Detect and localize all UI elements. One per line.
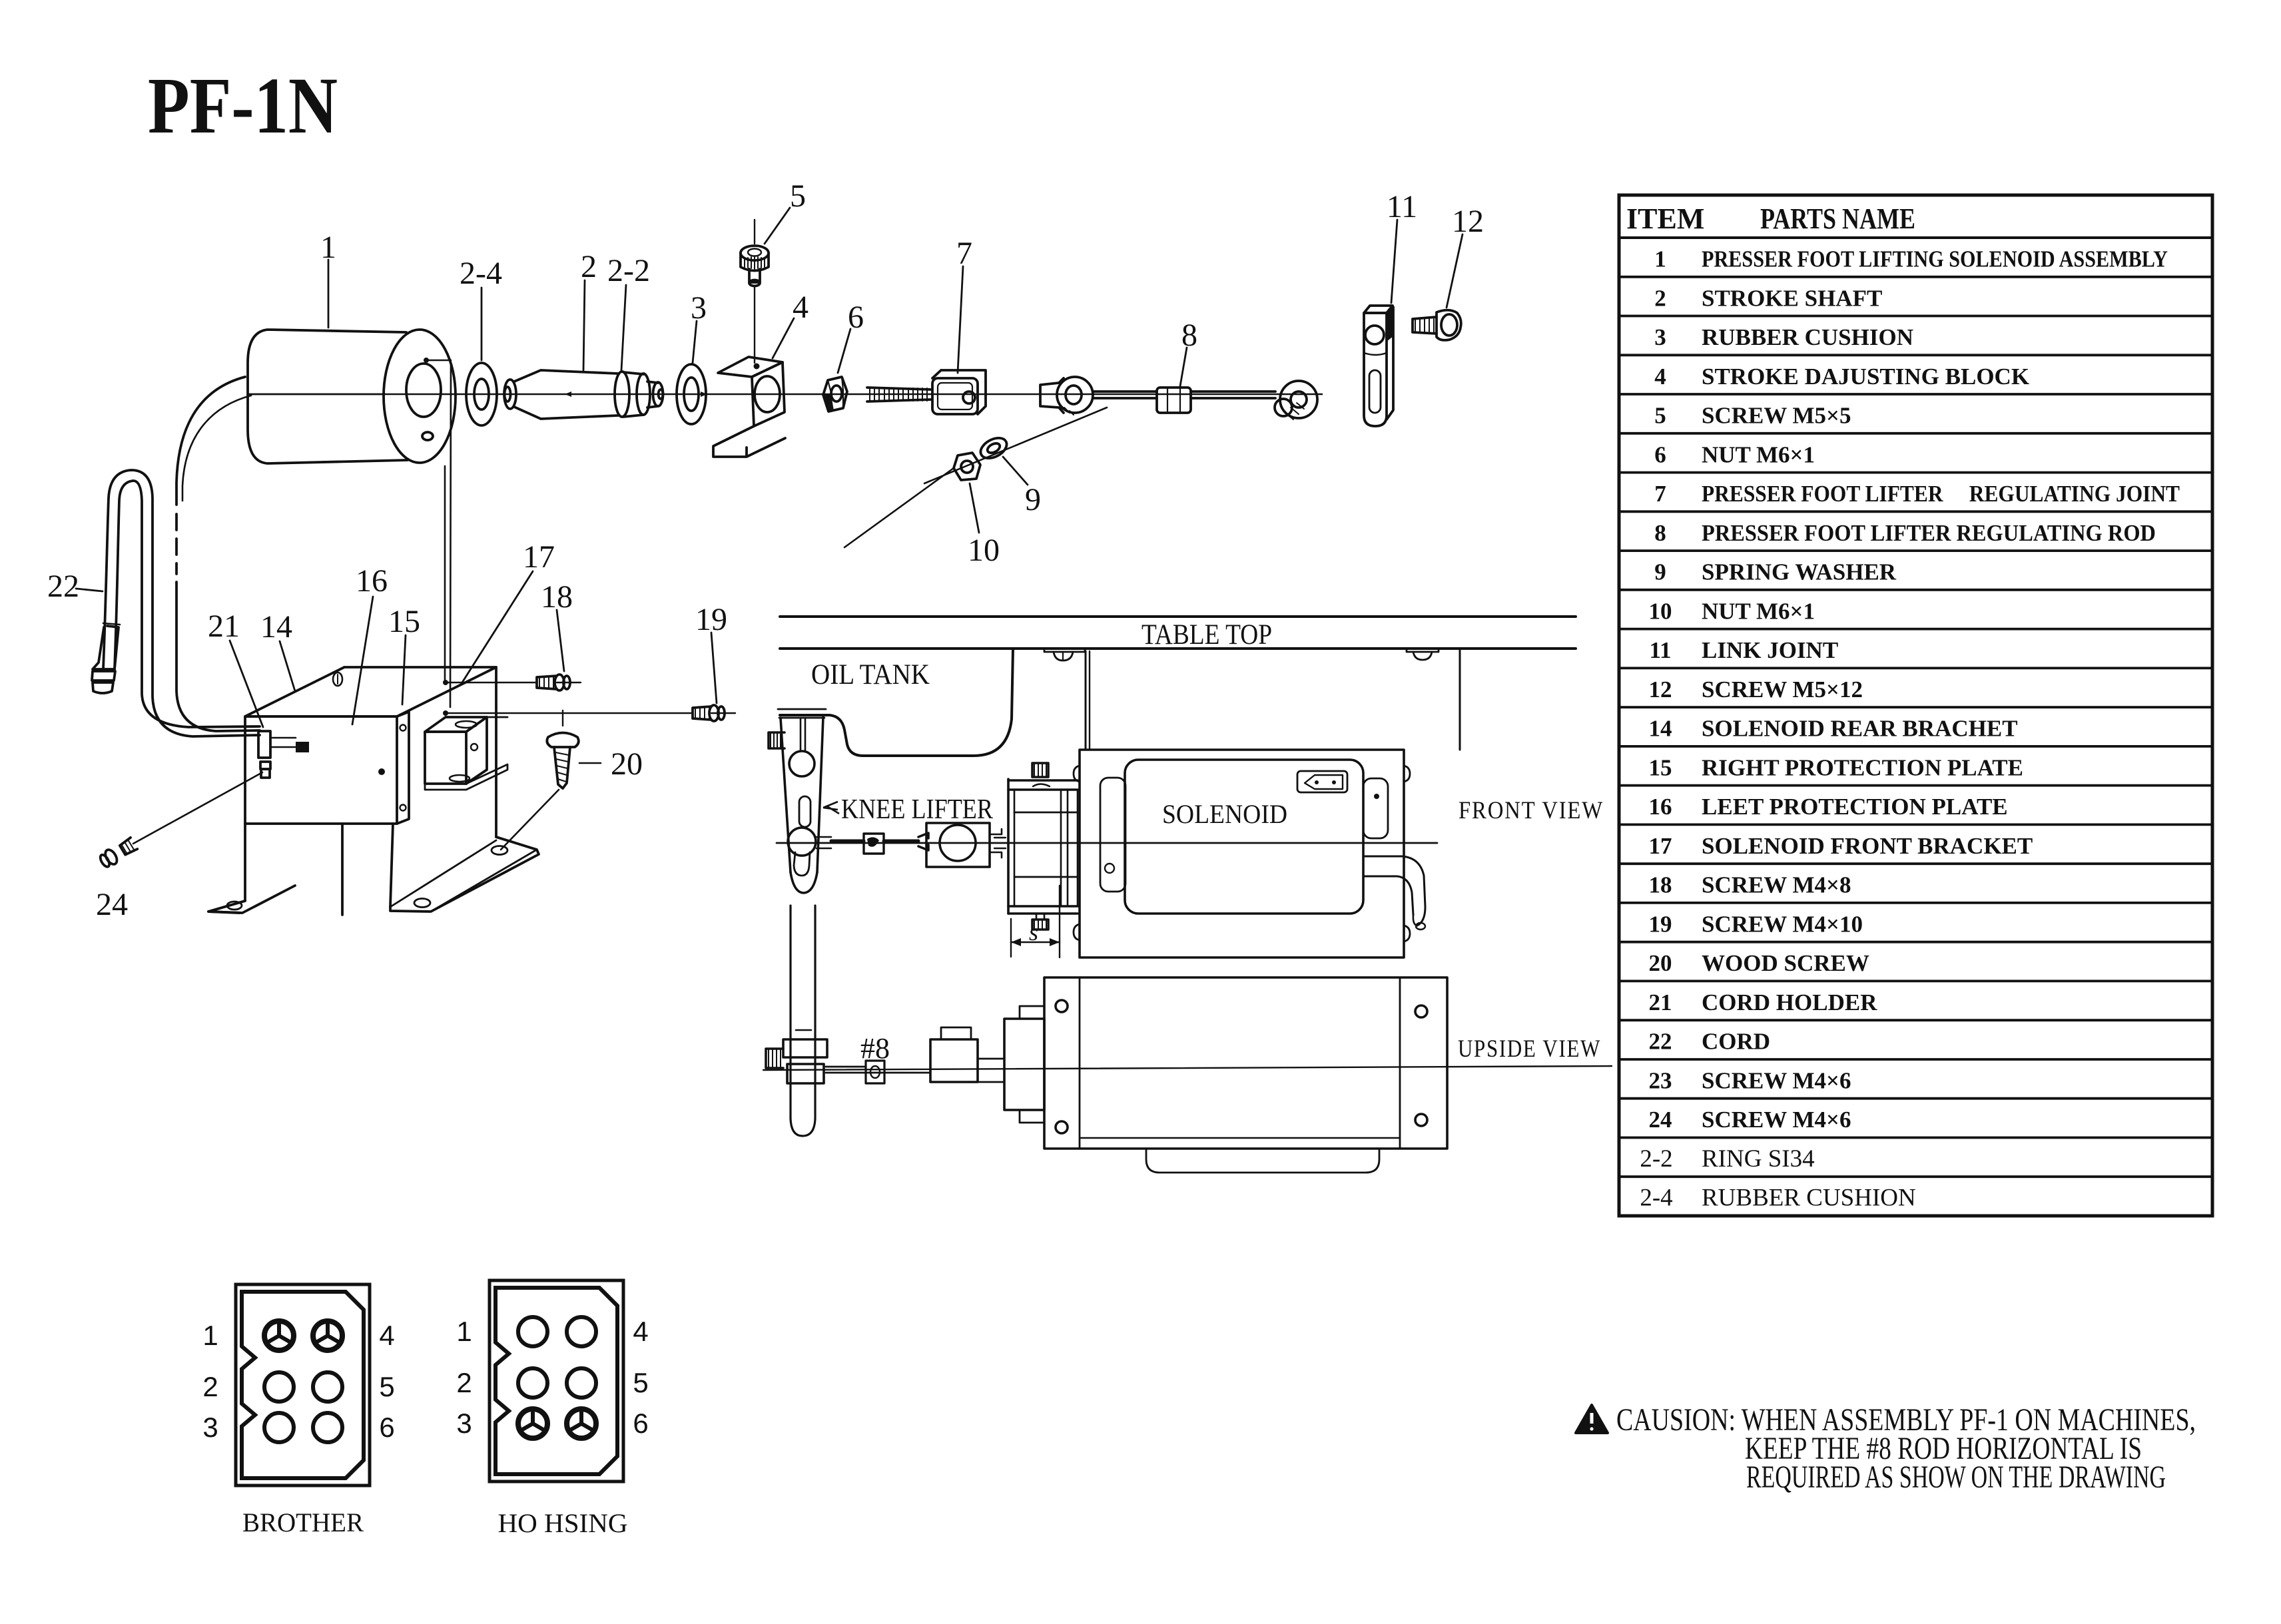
svg-text:HO HSING: HO HSING [498,1508,628,1538]
bottom bolt [1036,914,1044,920]
leader line from cylinder to front bracket [450,363,451,707]
svg-text:11: 11 [1649,637,1671,663]
svg-text:11: 11 [1387,189,1417,224]
svg-text:PARTS NAME: PARTS NAME [1760,202,1915,235]
svg-text:24: 24 [96,887,128,922]
svg-text:s: s [1029,919,1038,946]
stroke shaft 2 [504,380,516,409]
screw 20 leader to foot hole [501,790,559,850]
svg-text:UPSIDE VIEW: UPSIDE VIEW [1458,1035,1601,1063]
svg-text:ITEM: ITEM [1626,202,1704,235]
mounting screw right [1407,649,1439,652]
svg-text:23: 23 [1649,1068,1672,1094]
svg-text:15: 15 [388,604,420,639]
svg-text:6: 6 [633,1408,648,1439]
svg-text:STROKE DAJUSTING BLOCK: STROKE DAJUSTING BLOCK [1702,364,2029,390]
right leg [390,824,393,907]
svg-text:3: 3 [456,1408,472,1439]
svg-text:3: 3 [691,290,707,326]
solenoid bracket assembly [76,377,735,915]
svg-text:TABLE TOP: TABLE TOP [1141,619,1272,651]
svg-text:18: 18 [1649,872,1672,898]
clevis joint [918,833,928,850]
svg-text:KNEE LIFTER: KNEE LIFTER [841,794,993,825]
svg-text:RUBBER CUSHION: RUBBER CUSHION [1702,324,1913,350]
svg-text:24: 24 [1649,1107,1672,1133]
svg-text:2-2: 2-2 [1640,1145,1672,1173]
solenoid assembly 1 (cylinder) [248,330,408,463]
svg-text:2-4: 2-4 [1640,1185,1672,1212]
svg-text:12: 12 [1649,677,1672,702]
svg-text:PF-1N: PF-1N [148,61,338,150]
rear bracket 14 top face [245,667,496,716]
svg-text:RING SI34: RING SI34 [1702,1145,1815,1173]
svg-text:2-2: 2-2 [607,253,650,288]
screw 24 (M4x6) [133,772,262,844]
upside axis line [763,1066,1612,1070]
svg-text:22: 22 [47,569,79,604]
left inner panel [1100,778,1126,892]
svg-text:19: 19 [1649,911,1672,937]
right inner panel [1363,778,1388,838]
connector pinout BROTHER [236,1284,370,1486]
screw 5 (M5x5 knurled) [741,246,769,260]
label 1 leader [328,260,330,328]
right protection plate 15 (right face) [397,712,409,824]
svg-text:8: 8 [1181,318,1197,353]
upside rod [826,1072,930,1074]
label 22 dash [76,589,103,591]
exploded view assembly [248,208,1463,707]
svg-text:14: 14 [1649,716,1672,742]
view text labels [811,619,1604,1065]
svg-text:SCREW M4×8: SCREW M4×8 [1702,872,1851,898]
link joint 11 [1364,306,1393,313]
svg-text:16: 16 [356,563,388,599]
cord holder 21 [258,731,270,758]
installation views [763,617,1612,1173]
upside plunger housing [1004,1019,1044,1110]
svg-text:1: 1 [320,230,336,265]
svg-text:2: 2 [202,1371,218,1402]
front view axis line [777,842,1437,844]
label 10 leader [970,483,979,533]
axis centerline [248,394,1322,396]
rubber cushion 3 (ring) [677,364,706,424]
label 12 leader [1447,234,1463,308]
svg-text:#8: #8 [860,1032,890,1065]
svg-text:SOLENOID FRONT BRACKET: SOLENOID FRONT BRACKET [1702,833,2033,859]
svg-text:LEET PROTECTION PLATE: LEET PROTECTION PLATE [1702,794,2008,820]
upside knee lifter bar [789,906,791,1119]
svg-text:STROKE SHAFT: STROKE SHAFT [1702,285,1882,311]
solenoid front bracket 17 [425,717,487,732]
svg-text:10: 10 [968,533,1000,568]
presser foot lifter regulating joint 7 [932,370,986,414]
svg-text:FRONT VIEW: FRONT VIEW [1459,797,1604,824]
svg-text:SCREW M4×6: SCREW M4×6 [1702,1107,1851,1133]
svg-text:21: 21 [208,609,240,644]
label 2-2 leader [621,285,626,370]
rod clamp block #8 [864,834,884,854]
svg-text:SOLENOID: SOLENOID [1162,799,1287,829]
knee lifter rod [816,837,831,848]
svg-text:CORD HOLDER: CORD HOLDER [1702,989,1877,1015]
screw 18 (M4x8) [446,682,537,684]
rear bracket under table [1085,651,1087,750]
svg-text:5: 5 [1654,403,1666,429]
svg-text:OIL TANK: OIL TANK [811,659,930,690]
svg-text:CORD: CORD [1702,1029,1770,1055]
plunger in channel [1014,812,1078,814]
svg-text:7: 7 [1654,481,1666,507]
svg-text:1: 1 [456,1316,472,1347]
knee lifter arrow [823,802,839,814]
svg-text:6: 6 [848,300,864,335]
small stud on top face [333,673,342,686]
svg-text:WOOD SCREW: WOOD SCREW [1702,950,1869,976]
svg-text:NUT M6×1: NUT M6×1 [1702,441,1815,467]
svg-text:20: 20 [1649,950,1672,976]
svg-text:3: 3 [202,1412,218,1443]
knurled knob [766,1049,783,1068]
wire terminal (black) [296,742,309,752]
svg-text:15: 15 [1649,754,1672,780]
svg-text:SPRING WASHER: SPRING WASHER [1702,559,1897,585]
knee lifter side stub [769,732,785,748]
table top lines [780,615,1576,618]
left protection plate 16 (front face) [245,716,397,824]
nut 10 [954,453,980,480]
box edge screw bumps [1074,766,1080,782]
svg-text:BROTHER: BROTHER [242,1507,364,1537]
bracket labels [47,539,727,922]
svg-text:SCREW M4×6: SCREW M4×6 [1702,1068,1851,1094]
svg-text:2-4: 2-4 [460,256,502,291]
svg-text:18: 18 [541,579,573,615]
presser foot lifter regulating rod 8 [1040,378,1064,413]
front bracket channel [1007,779,1010,914]
svg-text:12: 12 [1452,204,1484,239]
screw 12 (M5x12) [1413,317,1437,334]
output wires hook [1363,856,1425,926]
svg-text:2: 2 [581,249,597,284]
svg-text:REQUIRED AS SHOW ON THE DRAWIN: REQUIRED AS SHOW ON THE DRAWING [1746,1460,2166,1495]
cord from solenoid [176,377,245,505]
label 7 leader [958,266,963,373]
label 6 leader [838,329,850,373]
svg-text:21: 21 [1649,989,1672,1015]
svg-text:16: 16 [1649,794,1672,820]
svg-text:4: 4 [633,1316,648,1347]
upside clevis [930,1039,978,1082]
clamp plates [783,1039,827,1057]
svg-text:6: 6 [379,1412,394,1443]
rubber cushion 2-4 (washer) [466,363,497,425]
upside view solenoid box [1044,977,1447,1149]
svg-text:5: 5 [379,1371,394,1402]
label 8 leader [1180,348,1187,386]
svg-text:NUT M6×1: NUT M6×1 [1702,598,1815,624]
svg-text:2: 2 [1654,285,1666,311]
svg-text:3: 3 [1654,324,1666,350]
rod 8 right eye [1280,381,1317,418]
bottom tab [1146,1149,1379,1173]
svg-text:4: 4 [793,290,809,325]
svg-text:9: 9 [1025,482,1041,517]
svg-text:RUBBER CUSHION: RUBBER CUSHION [1702,1185,1916,1212]
top bolt [1032,763,1048,777]
oil tank [780,649,1013,756]
part number labels [320,178,1484,568]
svg-text:PRESSER FOOT LIFTER REGULATING: PRESSER FOOT LIFTER REGULATING ROD [1702,520,2156,546]
wood screw 20 [547,733,578,748]
label 2 leader [583,280,585,370]
svg-text:PRESSER FOOT LIFTER REGULATIN: PRESSER FOOT LIFTER REGULATING JOINT [1702,481,2180,507]
svg-text:17: 17 [523,539,555,575]
cord plug [93,626,119,669]
svg-text:SCREW M5×5: SCREW M5×5 [1702,403,1851,429]
svg-text:14: 14 [260,609,292,645]
label 9 leader [1003,457,1028,485]
svg-text:19: 19 [695,602,727,637]
switch detail [1297,771,1347,792]
label 5 leader [765,208,790,244]
caution warning triangle [1576,1405,1608,1433]
caution text [1616,1402,2196,1495]
svg-text:20: 20 [611,746,643,782]
svg-text:9: 9 [1654,559,1666,585]
label 4 leader [773,318,794,358]
label leaders for 21,14,16,15,17 [230,641,263,727]
stroke adjusting block 4 [718,357,783,377]
svg-text:4: 4 [1654,364,1666,390]
svg-text:5: 5 [790,178,806,214]
dot on front plate [378,768,385,775]
svg-text:SOLENOID REAR BRACHET: SOLENOID REAR BRACHET [1702,716,2018,742]
label 11 leader [1391,220,1397,303]
spring washer 9 [977,434,1010,463]
leader diagonal for 9 and 10 [924,407,1107,483]
svg-text:10: 10 [1649,598,1672,624]
svg-text:2: 2 [456,1367,472,1398]
mounting screw left [1044,649,1085,652]
svg-text:8: 8 [1654,520,1666,546]
left foot [208,886,295,913]
S dimension arrow [1010,919,1012,957]
screw 19 (M4x10) [446,712,693,714]
svg-text:RIGHT PROTECTION PLATE: RIGHT PROTECTION PLATE [1702,754,2023,780]
rear bracket right edge [495,667,497,837]
connector pinout HO HSING [489,1280,623,1482]
svg-text:5: 5 [633,1367,648,1398]
wires to terminal [270,738,296,747]
svg-text:22: 22 [1649,1029,1672,1055]
svg-text:1: 1 [1654,246,1666,272]
svg-text:1: 1 [202,1320,218,1351]
nut 6 (M6x1) [823,377,847,411]
cord 22 (loop from plug to holder) [103,470,260,736]
solenoid box front view [1080,750,1404,957]
nut on rod 8 [1157,388,1191,413]
svg-text:PRESSER FOOT LIFTING SOLENOID: PRESSER FOOT LIFTING SOLENOID ASSEMBLY [1702,246,2168,272]
svg-text:6: 6 [1654,441,1666,467]
svg-text:SCREW M4×10: SCREW M4×10 [1702,911,1863,937]
table rows text [1640,246,2180,1212]
parts table [1619,195,2212,1216]
right foot [390,837,539,912]
left leg [244,824,246,901]
svg-text:7: 7 [956,236,972,271]
svg-text:4: 4 [379,1320,394,1351]
knee lifter lever [781,717,823,872]
threaded rod (joint 7 stud) [867,388,931,402]
#8 clamp on rod [866,1061,884,1083]
svg-text:17: 17 [1649,833,1672,859]
svg-text:SCREW M5×12: SCREW M5×12 [1702,677,1863,702]
svg-text:LINK JOINT: LINK JOINT [1702,637,1838,663]
